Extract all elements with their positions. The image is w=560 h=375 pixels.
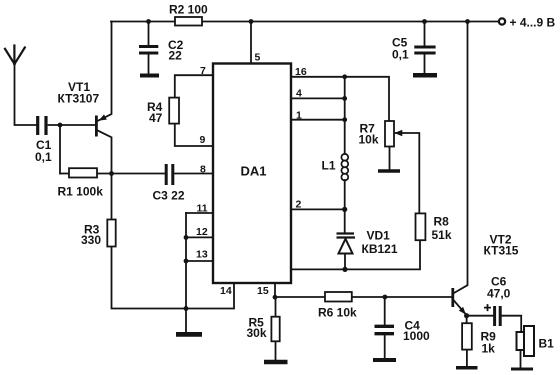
- svg-text:VD1: VD1: [367, 229, 391, 243]
- svg-text:DA1: DA1: [241, 164, 267, 179]
- svg-text:47: 47: [149, 111, 163, 125]
- svg-text:В1: В1: [539, 337, 555, 351]
- svg-text:5: 5: [255, 52, 261, 64]
- svg-text:R6 10k: R6 10k: [318, 306, 357, 320]
- svg-text:47,0: 47,0: [487, 287, 511, 301]
- svg-text:R8: R8: [434, 215, 450, 229]
- svg-text:C3 22: C3 22: [153, 189, 185, 203]
- svg-text:16: 16: [295, 66, 307, 78]
- svg-text:2: 2: [296, 199, 302, 211]
- svg-text:+ 4...9 В: + 4...9 В: [510, 16, 556, 30]
- svg-text:0,1: 0,1: [392, 48, 409, 62]
- svg-text:8: 8: [200, 164, 206, 176]
- svg-text:22: 22: [169, 49, 183, 63]
- svg-text:10k: 10k: [359, 133, 379, 147]
- svg-text:9: 9: [200, 134, 206, 146]
- svg-text:КТ3107: КТ3107: [58, 92, 100, 106]
- svg-text:КТ315: КТ315: [484, 244, 519, 258]
- svg-text:1000: 1000: [403, 329, 430, 343]
- svg-text:1k: 1k: [482, 342, 496, 356]
- svg-text:1: 1: [296, 110, 302, 122]
- svg-text:30k: 30k: [247, 326, 267, 340]
- svg-text:51k: 51k: [432, 228, 452, 242]
- svg-text:R2 100: R2 100: [169, 3, 208, 17]
- svg-text:12: 12: [196, 226, 208, 238]
- svg-text:15: 15: [257, 285, 269, 297]
- svg-text:330: 330: [81, 233, 101, 247]
- svg-text:КВ121: КВ121: [362, 242, 398, 256]
- svg-text:L1: L1: [322, 159, 336, 173]
- svg-text:13: 13: [196, 249, 208, 261]
- svg-text:7: 7: [200, 65, 206, 77]
- svg-text:14: 14: [220, 285, 232, 297]
- svg-text:0,1: 0,1: [35, 150, 52, 164]
- svg-text:R1 100k: R1 100k: [58, 185, 104, 199]
- svg-text:11: 11: [197, 203, 208, 215]
- svg-text:4: 4: [296, 88, 302, 100]
